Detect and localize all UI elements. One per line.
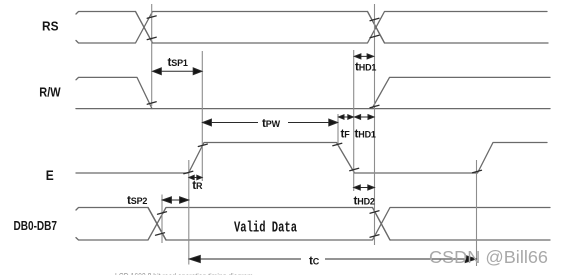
svg-text:Valid Data: Valid Data xyxy=(234,220,297,237)
svg-text:tSP1: tSP1 xyxy=(168,55,188,69)
tick E rise2 bottom xyxy=(473,170,482,172)
signal RS waveform xyxy=(76,12,548,44)
tick E fall bottom xyxy=(350,168,359,170)
dimension arrows xyxy=(153,54,477,263)
arrow tPW xyxy=(203,119,338,126)
ref line LB (E fall bottom) xyxy=(353,50,355,191)
svg-text:R/W: R/W xyxy=(39,85,60,99)
measurement reference lines xyxy=(152,4,477,266)
svg-text:DB0-DB7: DB0-DB7 xyxy=(14,218,58,233)
signal R/W waveform xyxy=(76,77,550,108)
tick RS X2 top xyxy=(370,18,379,20)
arrow tF xyxy=(339,115,354,120)
tick E rise bottom xyxy=(184,171,193,173)
arrow tHD1 top xyxy=(354,54,373,59)
ref line L5 (RS change #2) xyxy=(374,4,376,245)
svg-text:tSP2: tSP2 xyxy=(127,193,147,207)
waveforms xyxy=(76,12,550,241)
arrow tC xyxy=(189,255,476,262)
svg-text:CSDN @Bill66: CSDN @Bill66 xyxy=(429,247,548,267)
tick DB X1 bottom xyxy=(156,233,165,235)
svg-text:tPW: tPW xyxy=(262,116,281,130)
svg-text:tR: tR xyxy=(192,178,203,192)
ref line L1 (RS change #1) xyxy=(151,4,153,106)
arrow tR xyxy=(189,175,202,179)
svg-text:tF: tF xyxy=(341,127,351,141)
ref line LA (E fall top) xyxy=(337,114,339,146)
arrow tHD2 xyxy=(354,185,375,190)
signal E waveform xyxy=(76,143,547,174)
svg-text:tHD1: tHD1 xyxy=(355,127,376,141)
signal DB0-DB7 waveform xyxy=(76,208,550,241)
tick E fall top xyxy=(333,143,342,145)
tick RS X1 top xyxy=(147,16,156,18)
ref line L2 (E rise top) xyxy=(201,51,203,181)
ref line Ldb (DB change #1) xyxy=(161,195,163,244)
arrow tSP1 xyxy=(153,68,203,75)
tick DB X2 bottom xyxy=(370,235,379,237)
svg-text:RS: RS xyxy=(42,20,59,34)
svg-text:LCD 1602 8 bit read operation: LCD 1602 8 bit read operation timing dia… xyxy=(115,271,253,275)
svg-text:tC: tC xyxy=(309,254,320,268)
arrow tHD1 bottom xyxy=(355,115,374,120)
svg-text:tHD2: tHD2 xyxy=(354,194,375,208)
tick DB X2 top xyxy=(370,211,379,213)
svg-text:tHD1: tHD1 xyxy=(355,60,376,74)
svg-text:E: E xyxy=(46,168,54,183)
tick RS X1 bottom xyxy=(147,37,156,39)
tick R/W rise xyxy=(370,105,379,107)
tick RS X2 bottom xyxy=(370,35,379,37)
tick R/W fall xyxy=(147,102,156,104)
tick DB X1 top xyxy=(158,212,167,214)
ref line L3 (E rise bottom) xyxy=(188,160,190,265)
arrow tSP2 xyxy=(162,197,188,203)
crossing tick marks xyxy=(147,16,481,237)
tick E rise top xyxy=(198,144,207,146)
ref line L6 (E rise #2 bottom) xyxy=(476,160,478,266)
